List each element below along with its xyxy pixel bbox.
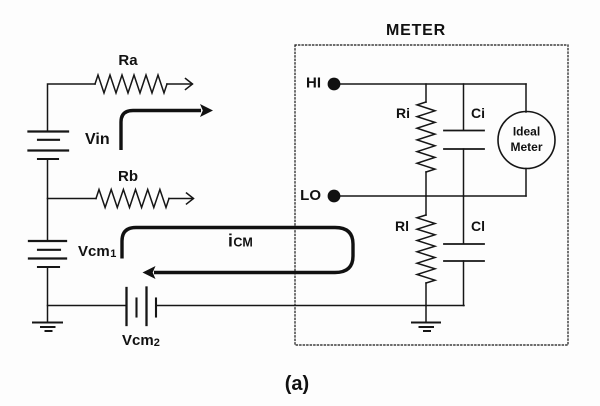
wire: Ra output arrow bbox=[167, 79, 193, 90]
source Vin (battery) bbox=[29, 132, 69, 160]
resistor Rl bbox=[417, 196, 435, 306]
wire: bottom rail left segment bbox=[48, 305, 127, 307]
node HI bbox=[328, 78, 341, 91]
capacitor Cl bbox=[444, 196, 484, 306]
svg-text:HI: HI bbox=[306, 75, 321, 92]
svg-text:(a): (a) bbox=[285, 373, 309, 395]
svg-text:Ci: Ci bbox=[471, 105, 485, 121]
svg-text:Rl: Rl bbox=[395, 218, 409, 234]
ideal meter M1 bbox=[498, 84, 555, 196]
svg-text:METER: METER bbox=[386, 22, 446, 39]
svg-text:Cl: Cl bbox=[471, 218, 485, 234]
ground (left) bbox=[33, 323, 62, 332]
meter enclosure box (dotted) bbox=[295, 45, 568, 345]
wire: left rail Vin to Rb junction bbox=[48, 159, 97, 199]
ground (meter) bbox=[412, 306, 440, 332]
svg-text:LO: LO bbox=[300, 187, 321, 204]
wire: bottom rail right segment bbox=[156, 305, 464, 307]
wire: left rail Rb junction to Vcm1 bbox=[47, 199, 49, 242]
svg-text:Vin: Vin bbox=[85, 131, 110, 148]
resistor Ra bbox=[95, 75, 167, 93]
svg-text:Ri: Ri bbox=[396, 105, 410, 121]
svg-text:Meter: Meter bbox=[510, 140, 542, 154]
current arrow: iCM common-mode loop bbox=[122, 228, 353, 280]
wire: HI rail bbox=[334, 83, 526, 85]
wire: top-left corner Vin to Ra bbox=[48, 84, 96, 131]
source Vcm1 (battery) bbox=[29, 241, 66, 267]
svg-text:Rb: Rb bbox=[118, 168, 138, 185]
wire: left rail Vcm1 to ground bbox=[47, 267, 49, 323]
resistor Rb bbox=[96, 190, 169, 208]
label Ideal Meter bbox=[510, 125, 542, 155]
node LO bbox=[328, 190, 341, 203]
wire: Rb output arrow bbox=[169, 193, 194, 204]
wire: LO rail bbox=[334, 195, 526, 197]
source Vcm2 (battery) bbox=[127, 288, 157, 326]
current arrow: differential signal path bbox=[121, 104, 213, 150]
resistor Ri bbox=[417, 84, 435, 196]
capacitor Ci bbox=[444, 84, 484, 196]
svg-text:Ideal: Ideal bbox=[513, 125, 540, 139]
svg-text:Ra: Ra bbox=[118, 52, 138, 69]
